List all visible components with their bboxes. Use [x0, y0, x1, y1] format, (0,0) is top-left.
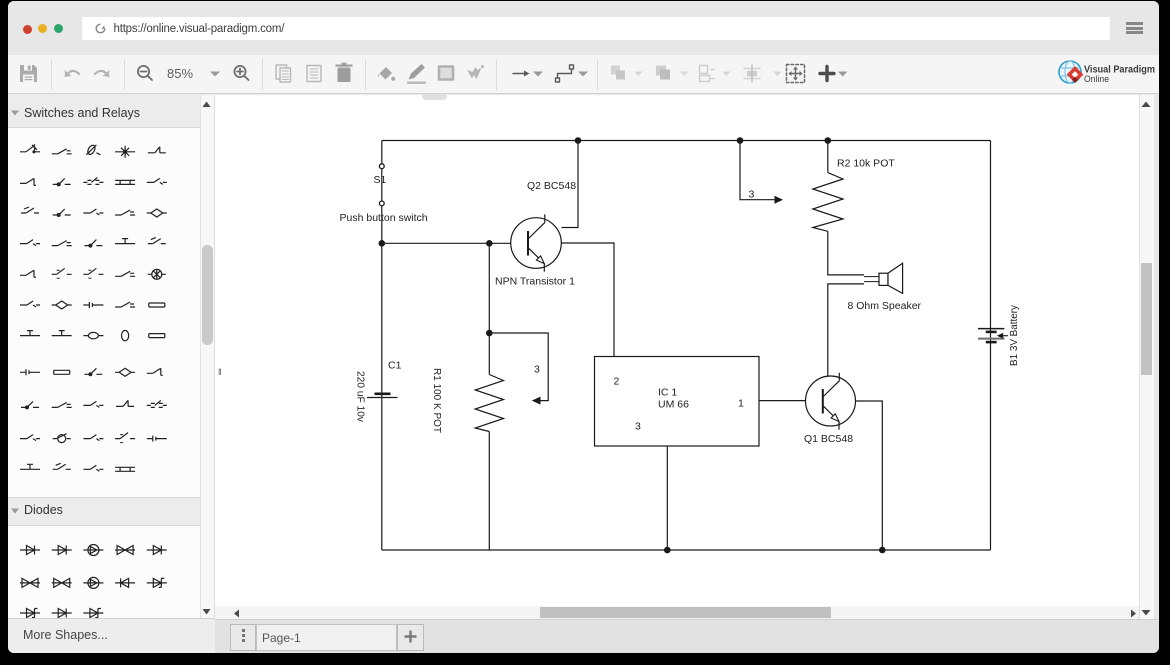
battery B1 [978, 329, 1008, 343]
arrow POT tap R1 [532, 397, 541, 405]
svg-text:1: 1 [738, 398, 744, 410]
undo [65, 70, 80, 77]
wire base of Q2 [382, 242, 511, 244]
arrow node 3 [775, 196, 784, 204]
resistor R2 [813, 173, 843, 232]
toolbar [8, 55, 1159, 94]
switch S1 [379, 164, 384, 206]
zoom in [234, 66, 248, 80]
svg-text:8 Ohm Speaker: 8 Ohm Speaker [848, 300, 922, 312]
wire Q2 collector [562, 141, 579, 228]
node junction R2 top [825, 137, 832, 144]
pencil [407, 64, 426, 84]
sidebar shape icons [8, 95, 200, 618]
redo [95, 70, 110, 77]
svg-text:S1: S1 [374, 174, 387, 186]
save [20, 65, 37, 82]
paste/note [307, 66, 321, 82]
IC U1 (IC 1 UM 66) [595, 357, 760, 447]
resistor R1 [475, 375, 503, 432]
node junction left [379, 240, 386, 247]
wire right rail [990, 141, 992, 551]
wire R1 branch lower [488, 432, 490, 551]
select all [787, 65, 805, 83]
svg-text:Push button switch: Push button switch [340, 212, 428, 224]
wire bottom rail [382, 549, 991, 551]
svg-text:3: 3 [534, 364, 540, 376]
transistor Q2 [511, 214, 562, 271]
left sidebar [8, 95, 214, 619]
trash [336, 63, 353, 82]
connector style [556, 65, 574, 82]
splitter handle [218, 367, 225, 381]
format brush [467, 65, 484, 79]
wire Q1 emitter [856, 401, 883, 550]
wire IC pin 1 to Q1 base [759, 400, 805, 402]
svg-text:Q1 BC548: Q1 BC548 [804, 433, 853, 445]
wire node 3 arrow [740, 141, 776, 200]
canvas area [214, 95, 1140, 620]
canvas horizontal scrollbar [215, 606, 1139, 620]
wire IC pin 3 to ground rail [666, 446, 668, 550]
capacitor C1 [367, 394, 398, 398]
node junction 3 [737, 137, 744, 144]
circuit drawing [214, 94, 1155, 603]
wire Q2 emitter to IC pin 2 [561, 243, 614, 357]
wire speaker to Q1 collector [828, 284, 864, 376]
svg-text:220 uF 10v: 220 uF 10v [355, 371, 367, 423]
transistor Q1 [806, 373, 856, 430]
node junction Q1 emitter [879, 547, 886, 554]
canvas vertical scrollbar [1139, 95, 1154, 620]
copy [276, 65, 291, 82]
bottom tab bar [215, 619, 1159, 654]
node junction R1 top [486, 330, 493, 337]
wire R2 to speaker [828, 231, 864, 275]
svg-text:IC 1: IC 1 [658, 387, 677, 399]
svg-text:Q2 BC548: Q2 BC548 [527, 180, 576, 192]
svg-text:UM 66: UM 66 [658, 399, 689, 411]
browser title bar [8, 1, 1159, 55]
wire R1 branch upper [488, 243, 490, 374]
Diodes header [8, 497, 214, 526]
toolbar notch [422, 94, 447, 100]
svg-text:Online: Online [1084, 74, 1109, 84]
shape fill icon [439, 67, 453, 80]
More Shapes bar [8, 618, 215, 654]
fill bucket [378, 67, 395, 81]
svg-text:R1 100 K POT: R1 100 K POT [431, 368, 443, 434]
wire R2 top [827, 141, 829, 173]
node junction Q2 collector top [575, 137, 582, 144]
svg-text:NPN Transistor 1: NPN Transistor 1 [495, 276, 575, 288]
sidebar scrollbar [200, 95, 214, 619]
node junction IC pin 3 [664, 547, 671, 554]
disabled: bring fwd [611, 66, 625, 80]
wire left rail [381, 141, 383, 551]
caret zoom [210, 72, 220, 77]
svg-text:3: 3 [635, 421, 641, 433]
svg-text:2: 2 [614, 376, 620, 388]
wire POT tap R1 [489, 333, 548, 401]
svg-text:3: 3 [749, 189, 755, 201]
svg-text:B1 3V Battery: B1 3V Battery [1008, 304, 1020, 366]
zoom out [138, 66, 152, 80]
arrow style [513, 71, 530, 77]
wire top rail [382, 140, 991, 142]
plus [820, 67, 834, 81]
svg-text:C1: C1 [388, 360, 402, 372]
node junction base [486, 240, 493, 247]
visual paradigm logo [1056, 58, 1159, 88]
svg-text:R2 10k POT: R2 10k POT [837, 158, 895, 170]
speaker LS1 [864, 263, 903, 293]
